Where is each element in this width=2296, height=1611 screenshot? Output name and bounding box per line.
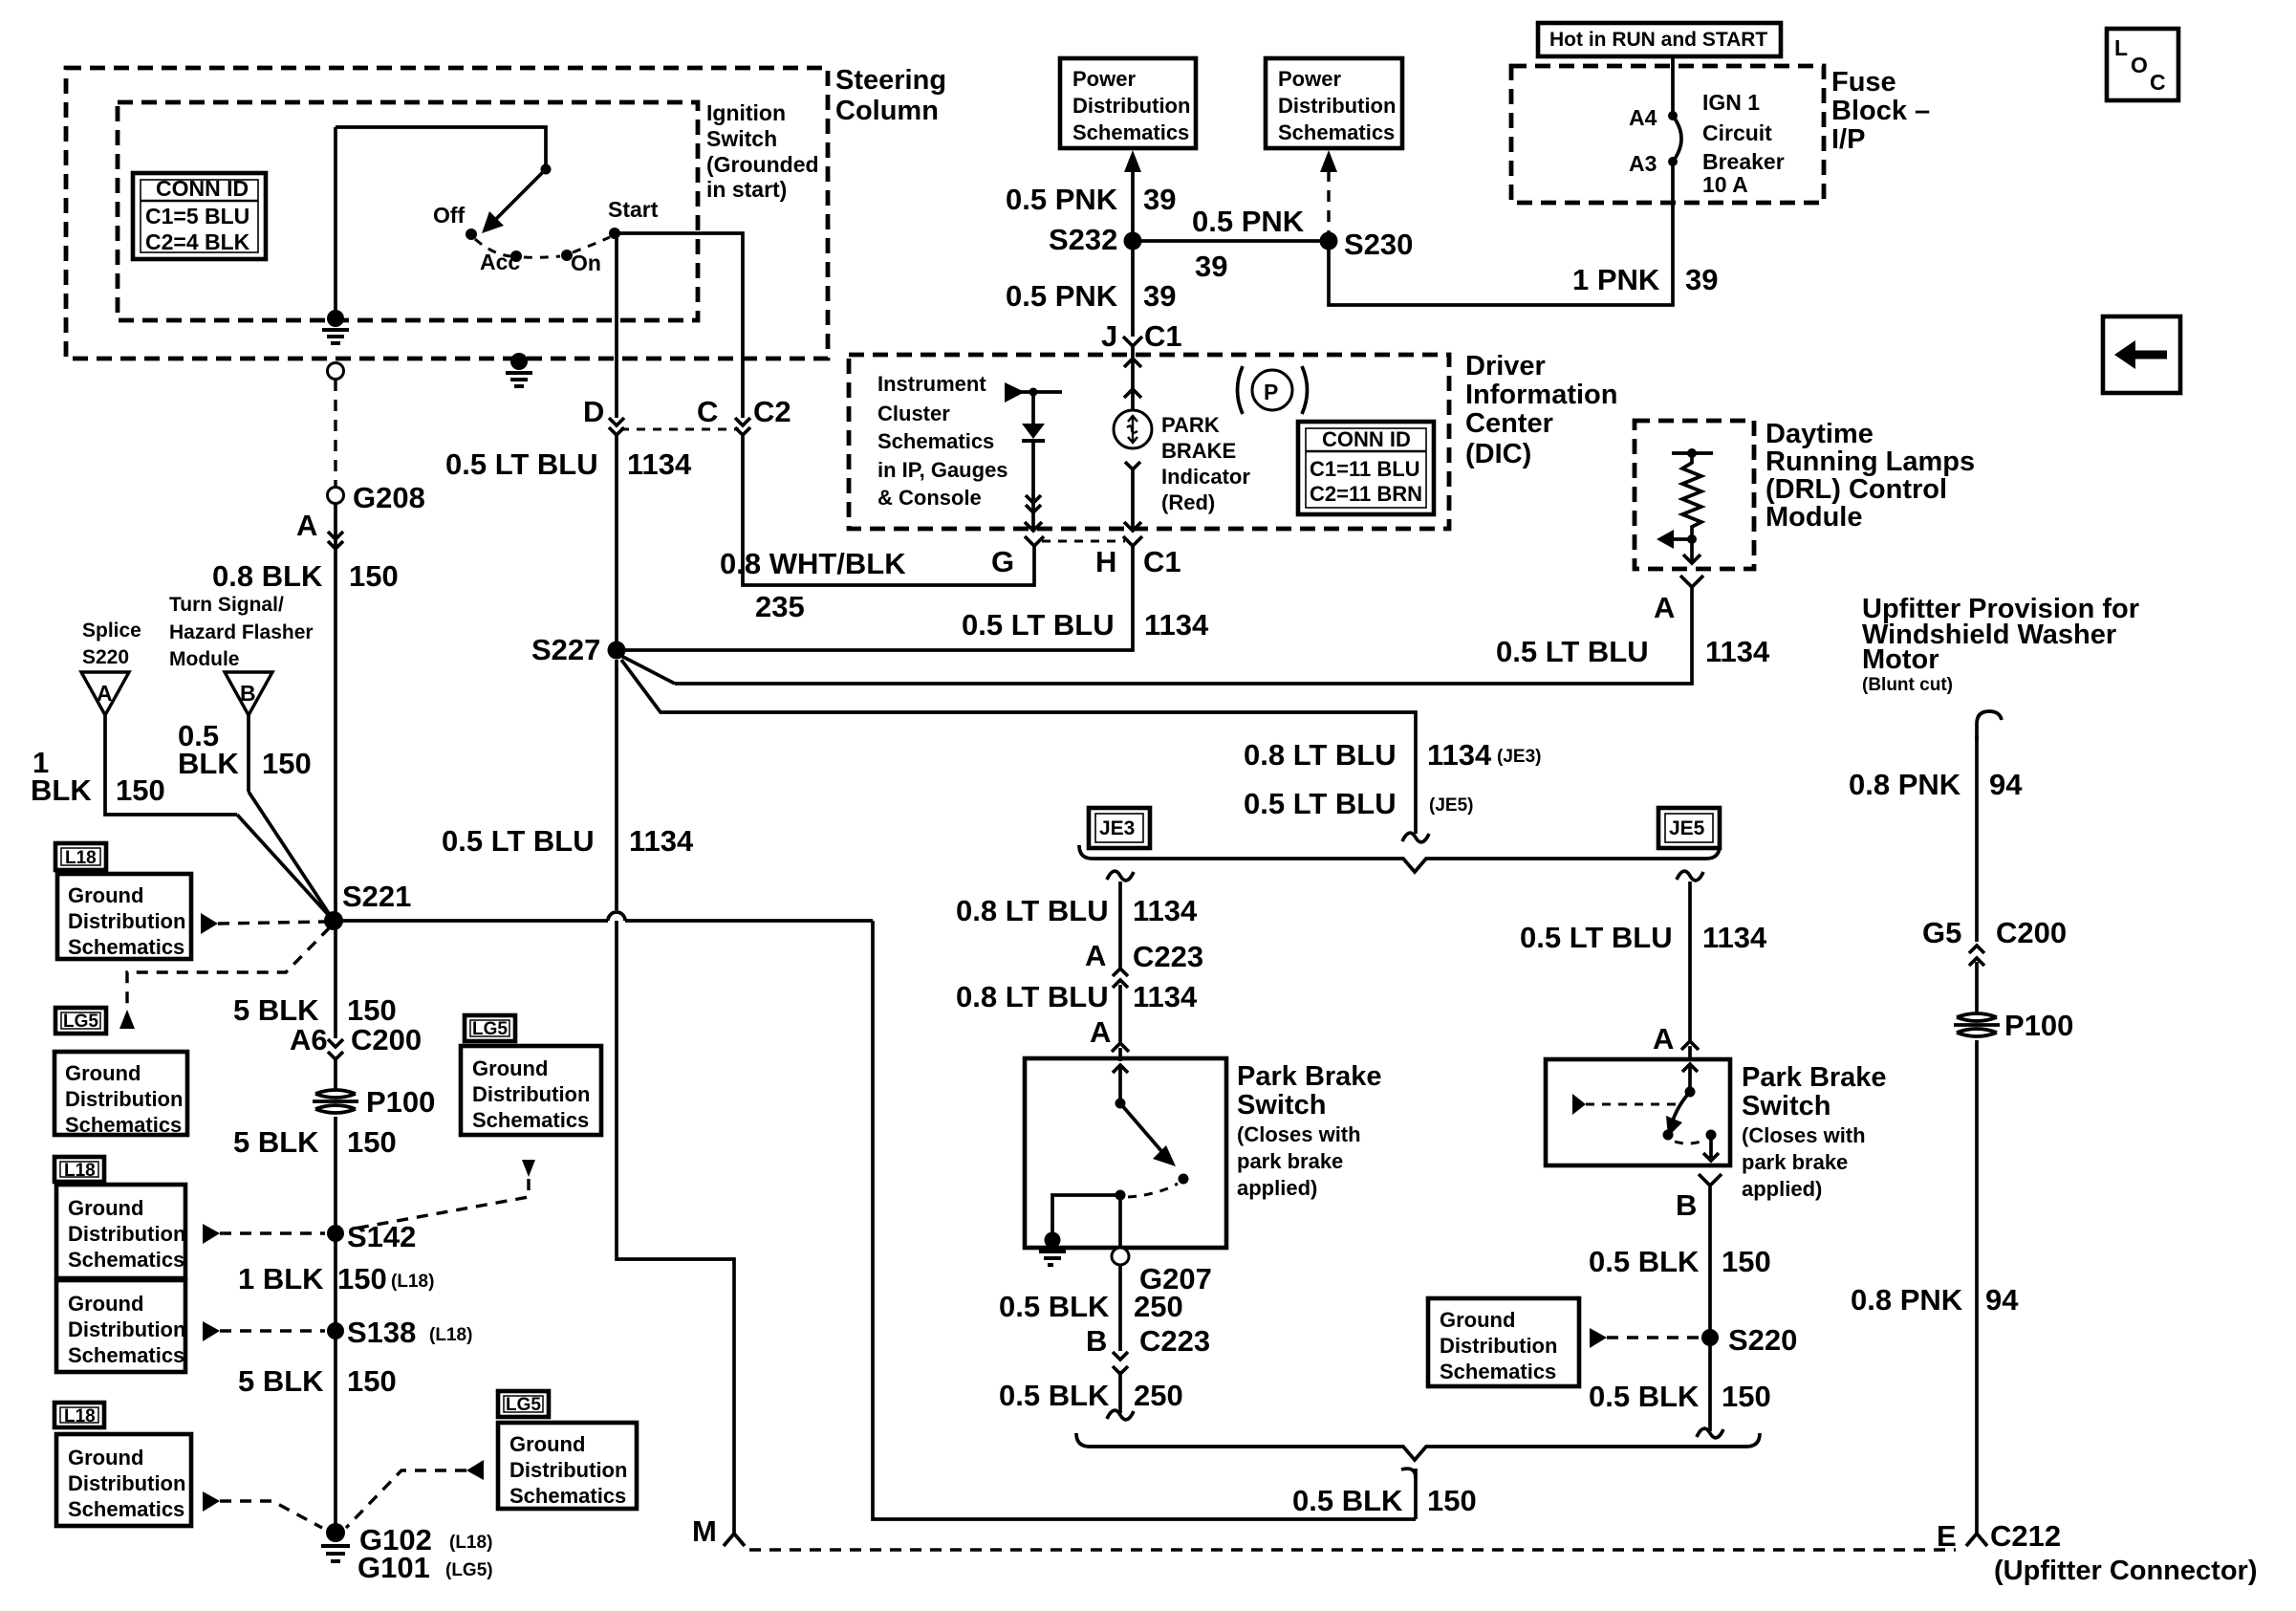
svg-text:Ground: Ground (1440, 1308, 1515, 1332)
svg-text:C1: C1 (1143, 545, 1181, 578)
wire: circuit 235 from C2 to DIC pin G (743, 435, 1034, 585)
svg-text:Hazard Flasher: Hazard Flasher (169, 621, 314, 643)
svg-text:C: C (697, 395, 718, 428)
svg-text:0.5 LT BLU: 0.5 LT BLU (445, 447, 598, 481)
svg-text:(DRL) Control: (DRL) Control (1765, 474, 1947, 505)
label: Steering Column (835, 65, 946, 126)
svg-text:Schematics: Schematics (68, 1343, 184, 1367)
svg-text:M: M (692, 1514, 717, 1548)
svg-text:Off: Off (433, 203, 466, 228)
svg-text:0.5 BLK: 0.5 BLK (999, 1379, 1110, 1412)
svg-text:0.8 LT BLU: 0.8 LT BLU (956, 980, 1109, 1013)
wire: 1 PNK 39 from breaker A3 to S230 (1329, 162, 1718, 305)
svg-text:A4: A4 (1629, 105, 1657, 130)
svg-text:150: 150 (347, 993, 397, 1027)
wire: circuit 1134 from D to S227 (615, 435, 618, 648)
svg-text:150: 150 (347, 1364, 397, 1398)
splice S138 (327, 1316, 472, 1349)
DRL internal feed bar (1672, 448, 1713, 458)
label: Daytime Running Lamps (DRL) Control Module (1765, 419, 1975, 533)
svg-text:E: E (1937, 1519, 1957, 1553)
svg-text:0.5 LT BLU: 0.5 LT BLU (1496, 635, 1649, 668)
svg-text:Park Brake: Park Brake (1742, 1062, 1887, 1093)
wire: 0.8 PNK 94 to upfitter connector pin E (1851, 1040, 2019, 1534)
wire: hot feed into breaker (1671, 56, 1675, 116)
ignition switch wiper arm with arrow (482, 164, 552, 234)
wire: 1 BLK 150 (L18) S142 to S138 (238, 1233, 434, 1331)
wire: dashed lead to G208 (334, 380, 336, 488)
svg-text:L18: L18 (65, 848, 97, 868)
svg-text:Distribution: Distribution (68, 1471, 185, 1495)
connector C223 pin B (1086, 1324, 1210, 1374)
svg-text:0.5 BLK: 0.5 BLK (1292, 1484, 1403, 1517)
park brake switch 1 box (1025, 1058, 1226, 1248)
svg-text:IGN 1: IGN 1 (1702, 90, 1760, 115)
svg-text:Schematics: Schematics (509, 1484, 626, 1508)
label 0.8 BLK 150 (212, 559, 399, 593)
ground (ignition switch housing) (322, 127, 349, 343)
svg-text:Fuse: Fuse (1831, 67, 1896, 98)
svg-text:Switch: Switch (706, 126, 777, 151)
svg-text:D: D (583, 395, 604, 428)
power distribution schematics box 2 (1266, 58, 1402, 148)
wire: 1134 main run down to upfitter pin M (617, 660, 734, 1534)
dashed reference link to S220 (1590, 1328, 1700, 1348)
svg-text:150: 150 (1722, 1245, 1771, 1278)
svg-text:1134: 1134 (1144, 608, 1209, 642)
wire: DRL pin A exit with arrow (1683, 539, 1700, 563)
label 0.8 LT BLU 1134 (JE3) / 0.5 LT BLU (JE5) (1244, 738, 1541, 820)
wire: 0.5 BLK 150 from triangle B to S221 (178, 715, 334, 921)
wire: ground return to S221 (873, 921, 1416, 1519)
page locator LOC box (2107, 29, 2178, 100)
brace: harness split JE3 / JE5 (1079, 845, 1720, 872)
dashed reference link bottom middle box to G101 (346, 1460, 484, 1528)
svg-text:Turn Signal/: Turn Signal/ (169, 594, 284, 616)
svg-text:Switch: Switch (1742, 1091, 1830, 1121)
svg-text:S227: S227 (531, 633, 600, 666)
svg-text:1134: 1134 (629, 824, 694, 858)
svg-text:(L18): (L18) (429, 1325, 472, 1345)
connector C1 boundary (dashed) (1042, 540, 1125, 543)
svg-text:A: A (1090, 1015, 1111, 1049)
svg-text:Power: Power (1072, 67, 1136, 91)
svg-text:C: C (2150, 70, 2166, 95)
power distribution schematics box 1 (1060, 58, 1196, 148)
svg-text:Distribution: Distribution (509, 1458, 627, 1482)
svg-text:Park Brake: Park Brake (1237, 1061, 1382, 1092)
svg-text:0.5 BLK: 0.5 BLK (1589, 1380, 1700, 1413)
steering column module box (66, 68, 828, 359)
svg-text:Cluster: Cluster (877, 402, 950, 425)
wire: 0.8 BLK 150 down to S221 (334, 504, 337, 921)
svg-text:Ground: Ground (68, 1446, 143, 1469)
svg-text:150: 150 (1722, 1380, 1771, 1413)
terminal A4 (1629, 105, 1678, 130)
svg-text:94: 94 (1985, 1283, 2019, 1317)
svg-text:L: L (2114, 35, 2128, 60)
label: Park Brake Switch (Closes with park brake applied) (1237, 1061, 1382, 1200)
svg-text:250: 250 (1134, 1290, 1183, 1323)
note: Instrument Cluster Schematics in IP, Gauges & Console (877, 372, 1008, 510)
svg-text:(L18): (L18) (391, 1272, 434, 1292)
svg-text:(Closes with: (Closes with (1237, 1122, 1361, 1146)
connector C2 boundary (dashed) (620, 428, 739, 431)
dashed reference link S221 to LG5 box (119, 927, 330, 1029)
RPO tag L18 (second) (54, 1157, 104, 1182)
daytime running lamps (DRL) control module box (1635, 421, 1754, 569)
svg-text:Instrument: Instrument (877, 372, 986, 396)
svg-text:0.5 BLK: 0.5 BLK (999, 1290, 1110, 1323)
diode (instrument cluster) (1022, 392, 1045, 441)
svg-text:B: B (1086, 1324, 1107, 1358)
svg-text:park brake: park brake (1742, 1150, 1848, 1174)
svg-text:1134: 1134 (1133, 980, 1198, 1013)
svg-text:Distribution: Distribution (1072, 94, 1190, 118)
pin D (583, 395, 624, 435)
svg-text:0.5 PNK: 0.5 PNK (1192, 205, 1305, 238)
label: Driver Information Center (DIC) (1465, 351, 1618, 469)
splice S232 (1049, 223, 1142, 256)
svg-text:P100: P100 (366, 1085, 435, 1119)
svg-text:0.8 LT BLU: 0.8 LT BLU (956, 894, 1109, 927)
RPO tag LG5 (middle) (465, 1015, 515, 1041)
switch 2 schematic reference arrow (1572, 1094, 1679, 1115)
label: Splice S220 (82, 620, 141, 668)
wire: 5 BLK 150 S221 to C200 (233, 921, 397, 1038)
svg-text:Power: Power (1278, 67, 1341, 91)
svg-text:S220: S220 (1728, 1323, 1797, 1357)
svg-text:150: 150 (347, 1125, 397, 1159)
svg-text:Module: Module (169, 648, 240, 670)
svg-text:Schematics: Schematics (68, 935, 184, 959)
connector ID table (steering column) (133, 173, 266, 259)
label: PARK BRAKE Indicator (Red) (1161, 413, 1250, 514)
svg-text:150: 150 (349, 559, 399, 593)
wire: 0.5 LT BLU 1134 from DRL A to S227 (621, 593, 1770, 684)
svg-text:B: B (1676, 1188, 1697, 1222)
park brake switch 2 contacts (1663, 1064, 1720, 1161)
svg-text:1 PNK: 1 PNK (1572, 263, 1660, 296)
svg-text:G: G (991, 545, 1014, 578)
svg-text:0.8 WHT/BLK: 0.8 WHT/BLK (720, 547, 906, 580)
svg-text:Schematics: Schematics (68, 1497, 184, 1521)
svg-text:Distribution: Distribution (1278, 94, 1396, 118)
svg-text:Schematics: Schematics (1278, 120, 1395, 144)
wire: 0.5 BLK 150 from S220 to brace (1589, 1338, 1771, 1438)
ignition switch position contacts Off Acc On Start (433, 197, 659, 275)
svg-text:(L18): (L18) (449, 1533, 492, 1553)
dashed reference link middle box to S142 (349, 1160, 535, 1230)
svg-text:Hot in RUN and START: Hot in RUN and START (1549, 29, 1767, 51)
splice S142 (327, 1220, 416, 1253)
RPO tag LG5 (left) (55, 1008, 106, 1034)
pin G of DIC connector C1 (991, 536, 1044, 578)
wire: 0.5 PNK 39 from S232 down to DIC pin J (1006, 241, 1176, 337)
svg-text:C2=4 BLK: C2=4 BLK (145, 229, 250, 254)
svg-text:On: On (571, 250, 601, 275)
svg-text:S221: S221 (342, 880, 411, 913)
svg-text:S230: S230 (1344, 228, 1413, 261)
svg-text:L18: L18 (64, 1161, 96, 1181)
svg-text:0.5 PNK: 0.5 PNK (1006, 279, 1118, 313)
label 0.5 LT BLU 1134 (main run) (442, 824, 694, 858)
svg-text:L18: L18 (64, 1406, 96, 1426)
svg-text:Schematics: Schematics (68, 1248, 184, 1272)
svg-text:park brake: park brake (1237, 1149, 1343, 1173)
svg-text:94: 94 (1989, 768, 2023, 801)
svg-text:Center: Center (1465, 408, 1553, 439)
svg-text:5 BLK: 5 BLK (238, 1364, 324, 1398)
ground distribution schematics box 3 (56, 1185, 185, 1278)
svg-text:Breaker: Breaker (1702, 149, 1785, 174)
wire: ignition C2 output (615, 233, 743, 418)
ignition switch box (118, 102, 698, 320)
wire: 0.5 BLK 250 to splice brace (999, 1371, 1183, 1420)
wire: J into DIC with up arrow (1124, 356, 1141, 410)
svg-text:Driver: Driver (1465, 351, 1546, 381)
svg-text:S138: S138 (347, 1316, 416, 1349)
svg-text:applied): applied) (1237, 1176, 1317, 1200)
svg-text:(Closes with: (Closes with (1742, 1123, 1866, 1147)
svg-text:A: A (1085, 939, 1106, 972)
PARK BRAKE indicator lamp (1114, 410, 1152, 448)
svg-text:Ground: Ground (472, 1056, 548, 1080)
svg-text:(JE3): (JE3) (1497, 747, 1541, 767)
connector ID table (DIC) (1298, 422, 1434, 514)
svg-text:Splice: Splice (82, 620, 141, 642)
svg-text:A: A (97, 681, 113, 706)
svg-text:in start): in start) (706, 177, 787, 202)
label: Upfitter Provision for Windshield Washer Motor (Blunt cut) (1862, 594, 2139, 695)
label 0.5 BLK 250 (999, 1265, 1183, 1351)
splice S221 (324, 880, 411, 930)
svg-text:39: 39 (1685, 263, 1718, 296)
svg-text:I/P: I/P (1831, 124, 1865, 155)
pin E of upfitter connector C212 (1937, 1519, 2257, 1586)
svg-text:Information: Information (1465, 380, 1618, 410)
wire: 1134 S227 branch to JE3/JE5 split (621, 660, 1429, 842)
svg-text:C2=11 BRN: C2=11 BRN (1310, 482, 1422, 506)
splice S230 (1320, 228, 1414, 261)
svg-text:0.5 LT BLU: 0.5 LT BLU (1520, 921, 1673, 954)
svg-text:Block –: Block – (1831, 96, 1930, 126)
wire: ignition D output (615, 233, 618, 418)
terminal A3 (1629, 151, 1678, 176)
svg-text:Steering: Steering (835, 65, 946, 96)
dashed reference link box1 to S221 (201, 913, 325, 934)
svg-text:Start: Start (608, 197, 659, 222)
svg-text:Motor: Motor (1862, 644, 1939, 675)
svg-text:B: B (240, 681, 256, 706)
svg-text:S220: S220 (82, 646, 129, 668)
svg-text:Distribution: Distribution (68, 909, 185, 933)
svg-text:& Console: & Console (877, 486, 982, 510)
svg-text:Schematics: Schematics (1072, 120, 1189, 144)
svg-text:Schematics: Schematics (472, 1108, 589, 1132)
svg-text:A3: A3 (1629, 151, 1657, 176)
svg-text:O: O (2131, 53, 2148, 77)
svg-text:Distribution: Distribution (68, 1222, 185, 1246)
svg-text:S232: S232 (1049, 223, 1117, 256)
svg-text:0.8 PNK: 0.8 PNK (1849, 768, 1961, 801)
svg-text:39: 39 (1143, 183, 1176, 216)
svg-text:1134: 1134 (1133, 894, 1198, 927)
svg-text:BLK: BLK (31, 773, 92, 807)
svg-text:0.5 LT BLU: 0.5 LT BLU (962, 608, 1115, 642)
label 0.5 LT BLU 1134 (JE5 drop) (1520, 921, 1767, 954)
svg-text:1134: 1134 (1702, 921, 1767, 954)
splice S220 (1701, 1323, 1797, 1357)
dashed reference link box4 to S138 (203, 1321, 325, 1341)
wire: 5 BLK 150 S138 to G102 (238, 1331, 397, 1527)
svg-text:0.8 LT BLU: 0.8 LT BLU (1244, 738, 1397, 772)
ground distribution schematics box 5 (56, 1434, 191, 1526)
svg-text:Ground: Ground (65, 1061, 141, 1085)
svg-text:Distribution: Distribution (1440, 1334, 1557, 1358)
svg-text:150: 150 (1427, 1484, 1477, 1517)
svg-text:0.5 BLK: 0.5 BLK (1589, 1245, 1700, 1278)
off-page triangle A (splice S220) (81, 672, 129, 715)
svg-text:Ground: Ground (68, 1292, 143, 1316)
svg-text:LG5: LG5 (63, 1012, 98, 1032)
svg-text:A: A (1654, 591, 1675, 624)
svg-text:C1: C1 (1144, 319, 1182, 353)
svg-text:C223: C223 (1139, 1324, 1210, 1358)
ground connection G208 (328, 481, 425, 514)
svg-text:P: P (1264, 380, 1278, 404)
pin B (park brake switch 2) (1676, 1174, 1722, 1222)
pin H of DIC connector C1 (1095, 536, 1181, 578)
svg-text:0.5 LT BLU: 0.5 LT BLU (442, 824, 595, 858)
svg-text:C200: C200 (1996, 916, 2067, 949)
svg-text:5 BLK: 5 BLK (233, 1125, 319, 1159)
ground distribution schematics box (right) (1428, 1298, 1579, 1386)
wire: JE3 drop to park brake switch A (1107, 871, 1134, 968)
label: Turn Signal/ Hazard Flasher Module (169, 594, 314, 670)
svg-text:Schematics: Schematics (877, 429, 994, 453)
svg-text:A6: A6 (290, 1023, 328, 1056)
svg-text:Circuit: Circuit (1702, 120, 1772, 145)
label 0.5 LT BLU 1134 (steering to S227) (445, 447, 692, 481)
wire: indicator to DIC pin H with arrow (1124, 462, 1141, 532)
svg-text:250: 250 (1134, 1379, 1183, 1412)
grommet P100 (right) (1954, 1009, 2073, 1042)
svg-text:Running Lamps: Running Lamps (1765, 446, 1975, 477)
label: Ignition Switch (Grounded in start) (706, 100, 819, 202)
svg-text:Acc: Acc (480, 250, 520, 274)
ground distribution schematics box (bottom middle) (498, 1423, 637, 1509)
svg-text:C223: C223 (1133, 940, 1203, 973)
svg-text:BRAKE: BRAKE (1161, 439, 1236, 463)
svg-text:LG5: LG5 (506, 1395, 541, 1415)
svg-text:PARK: PARK (1161, 413, 1220, 437)
DRL output arrow left (1657, 530, 1697, 549)
svg-text:in IP, Gauges: in IP, Gauges (877, 458, 1008, 482)
wire: 0.5 BLK 150 from switch 2 to S220 (1589, 1193, 1771, 1338)
svg-text:J: J (1101, 319, 1117, 353)
pin A (DRL) (1654, 576, 1703, 624)
dashed reference link box3 to S142 (203, 1224, 325, 1244)
svg-text:Daytime: Daytime (1765, 419, 1874, 449)
off-page triangle B (flasher module) (225, 672, 272, 715)
svg-text:C212: C212 (1990, 1519, 2061, 1553)
svg-text:JE3: JE3 (1099, 817, 1135, 839)
wire: 1134 from DIC H down and left to S227 (625, 553, 1209, 650)
svg-text:Switch: Switch (1237, 1090, 1326, 1121)
fuse block I/P box (1511, 66, 1824, 203)
ground (steering column, grounded in start) (506, 353, 532, 386)
back arrow box (2103, 316, 2180, 393)
svg-text:5 BLK: 5 BLK (233, 993, 319, 1027)
svg-text:Schematics: Schematics (65, 1113, 182, 1137)
connector bubble at steering column boundary (328, 363, 344, 380)
pin A (park brake switch 2) (1653, 1022, 1699, 1059)
wire: 0.5 PNK 39 up to power distribution (arrow) (1006, 150, 1176, 241)
svg-text:Module: Module (1765, 502, 1863, 533)
svg-text:(Upfitter Connector): (Upfitter Connector) (1994, 1556, 2257, 1586)
ground distribution schematics box 4 (56, 1280, 185, 1372)
connector C200 pin A6 (290, 1023, 422, 1059)
brace: park brake grounds join (1076, 1433, 1760, 1460)
RPO tag L18 (top) (55, 843, 106, 870)
ground distribution schematics box 1 (57, 874, 191, 959)
hot in RUN and START feed box (1538, 23, 1781, 56)
svg-text:0.5 LT BLU: 0.5 LT BLU (1244, 787, 1397, 820)
label: Park Brake Switch (Closes with park brake applied) right (1742, 1062, 1887, 1201)
svg-text:(Grounded: (Grounded (706, 152, 819, 177)
svg-text:Ground: Ground (68, 1196, 143, 1220)
svg-text:S142: S142 (347, 1220, 416, 1253)
svg-text:Indicator: Indicator (1161, 465, 1250, 489)
ground G102 (L18) G101 (LG5) (321, 1523, 493, 1584)
svg-text:Distribution: Distribution (472, 1082, 590, 1106)
svg-text:CONN ID: CONN ID (156, 176, 249, 201)
park brake switch 2 box (1546, 1059, 1730, 1165)
splice S227 (531, 633, 626, 666)
svg-text:(JE5): (JE5) (1429, 795, 1473, 816)
svg-text:LG5: LG5 (472, 1019, 508, 1039)
wire: 5 BLK 150 P100 to S142 (233, 1117, 397, 1233)
switch 1 ground leg (1039, 1195, 1120, 1265)
svg-text:Distribution: Distribution (68, 1317, 185, 1341)
connector C200 pin G5 (1922, 916, 2067, 1015)
dashed reference link box5 to G102 (203, 1491, 322, 1528)
wire: ignition switch feed bar (336, 127, 546, 169)
RPO tag JE5 (1658, 808, 1720, 848)
svg-text:BLK: BLK (178, 747, 239, 780)
pin M of upfitter connector C212 (692, 1514, 745, 1548)
driver information center (DIC) module box (849, 355, 1449, 529)
svg-text:1134: 1134 (1427, 738, 1492, 772)
RPO tag LG5 (bottom middle) (498, 1391, 549, 1417)
svg-text:150: 150 (337, 1262, 387, 1295)
wire: JE5 drop to park brake switch 2 (1677, 871, 1703, 1040)
wire: 0.5 PNK 39 between S232 and S230 (1133, 205, 1329, 283)
svg-text:39: 39 (1143, 279, 1176, 313)
ground distribution schematics box 2 (54, 1052, 187, 1137)
svg-text:1134: 1134 (627, 447, 692, 481)
pin A (park brake switch 1) (1090, 1015, 1129, 1061)
RPO tag JE3 (1089, 808, 1150, 848)
svg-text:C2: C2 (753, 395, 791, 428)
park brake switch 1 contacts (1113, 1065, 1189, 1201)
svg-text:C1=5 BLU: C1=5 BLU (145, 204, 249, 229)
label 0.8 LT BLU 1134 (below C223) (956, 980, 1198, 1013)
svg-text:JE5: JE5 (1669, 817, 1705, 839)
svg-text:Ground: Ground (509, 1432, 585, 1456)
svg-text:10 A: 10 A (1702, 172, 1748, 197)
